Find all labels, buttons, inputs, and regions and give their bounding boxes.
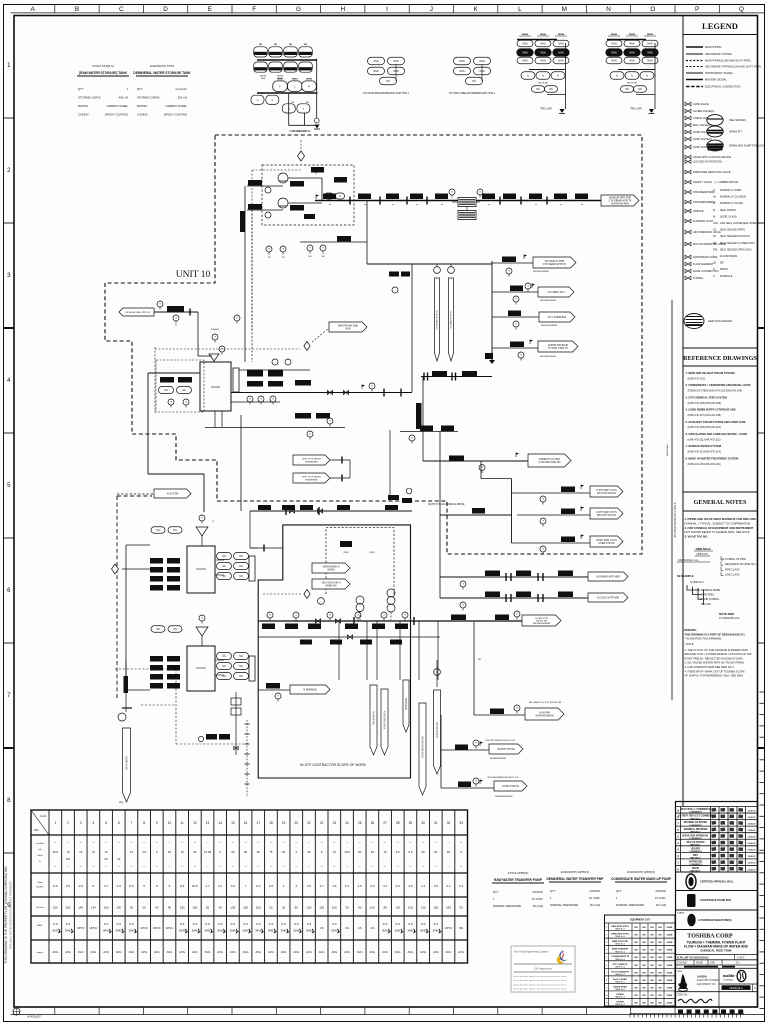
general notes text xyxy=(685,517,757,539)
svg-text:15 m3/hr: 15 m3/hr xyxy=(655,896,666,900)
svg-text:PSL: PSL xyxy=(713,248,718,251)
svg-text:--: -- xyxy=(308,864,310,868)
svg-text:NN: NN xyxy=(304,44,308,46)
svg-text:AVG: AVG xyxy=(446,950,452,954)
svg-text:NN: NN xyxy=(658,935,662,937)
svg-text:NN-LNN: NN-LNN xyxy=(211,386,220,389)
branch B1 xyxy=(492,255,576,277)
svg-text:304L: 304L xyxy=(293,929,300,933)
svg-text:3.5: 3.5 xyxy=(358,884,363,888)
svg-text:NN: NN xyxy=(239,575,243,578)
distribution header xyxy=(440,479,512,544)
svg-text:THIS DRAWING IS THE PROPERTY O: THIS DRAWING IS THE PROPERTY OF TOSHIBA … xyxy=(4,866,8,964)
tag code bracket list xyxy=(677,556,756,578)
svg-text:nn: nn xyxy=(329,204,331,206)
acid tank funnel xyxy=(196,515,214,546)
double instrument stack 2 xyxy=(387,589,395,620)
svg-text:--: -- xyxy=(143,840,145,844)
svg-text:25: 25 xyxy=(282,906,286,910)
svg-text:--: -- xyxy=(397,840,399,844)
svg-text:EPOXY COATING: EPOXY COATING xyxy=(164,113,187,117)
svg-text:4.7: 4.7 xyxy=(104,884,109,888)
svg-text:dwg.pt: dwg.pt xyxy=(37,951,44,954)
svg-text:NONE: NONE xyxy=(696,962,703,965)
svg-text:NN: NN xyxy=(642,927,646,929)
svg-text:--: -- xyxy=(257,864,259,868)
svg-text:NN PNP STP NN: NN PNP STP NN xyxy=(497,749,515,751)
svg-text:NN: NN xyxy=(650,972,654,974)
svg-text:3.5: 3.5 xyxy=(307,884,312,888)
svg-text:NN NN NN: NN NN NN xyxy=(627,83,637,85)
svg-text:HEAT EXCHANGER: HEAT EXCHANGER xyxy=(708,319,732,323)
svg-text:304L: 304L xyxy=(306,929,313,933)
svg-text:NNNN: NNNN xyxy=(292,79,298,81)
svg-text:ELECTRIC POWER: ELECTRIC POWER xyxy=(697,979,719,982)
svg-text:REV AS NOTED: REV AS NOTED xyxy=(687,841,705,844)
contractor logo cell xyxy=(678,968,720,991)
svg-text:SECONDARY PIPING(LOW AND DUTY: SECONDARY PIPING(LOW AND DUTY PIPE) xyxy=(705,65,761,69)
svg-text:SEAL SEALED CLOSED ONLY: SEAL SEALED CLOSED ONLY xyxy=(720,242,755,245)
svg-text:S.S: S.S xyxy=(116,922,121,926)
pipe schedule table frame xyxy=(31,810,468,963)
svg-text:--: -- xyxy=(194,840,196,844)
svg-text:nn: nn xyxy=(488,204,490,206)
unit 10 dashed battery-limit boundary xyxy=(105,135,642,554)
svg-text:28: 28 xyxy=(396,821,400,825)
svg-text:NN-NNN-NNNNN: NN-NNN-NNNNN xyxy=(540,300,556,302)
svg-text:QTY: QTY xyxy=(616,889,622,893)
svg-text:NN: NN xyxy=(650,950,654,952)
svg-text:N2 EXAMPLE: N2 EXAMPLE xyxy=(677,574,694,578)
svg-text:VALVE NO.: VALVE NO. xyxy=(678,559,691,562)
svg-text:SEAL SEALED OPEN ONLY: SEAL SEALED OPEN ONLY xyxy=(720,248,752,251)
svg-text:NN: NN xyxy=(658,957,662,959)
svg-text:DEMINERAL WATER TRANSFER PMP: DEMINERAL WATER TRANSFER PMP xyxy=(546,877,604,881)
svg-text:(KWU-FD-113,KWU-FD-114): (KWU-FD-113,KWU-FD-114) xyxy=(688,450,721,454)
svg-text:70: 70 xyxy=(79,850,83,854)
branch C2 xyxy=(517,507,623,527)
svg-text:AVG: AVG xyxy=(91,950,97,954)
svg-text:NN NN NN: NN NN NN xyxy=(538,83,548,85)
svg-text:N COOLG WTR HDR: N COOLG WTR HDR xyxy=(597,598,619,600)
svg-text:80: 80 xyxy=(383,906,387,910)
svg-text:24: 24 xyxy=(345,821,349,825)
svg-text:AVG: AVG xyxy=(103,950,109,954)
svg-text:304L: 304L xyxy=(52,929,59,933)
svg-text:50: 50 xyxy=(345,906,349,910)
scope banner 1 xyxy=(312,563,350,573)
rotated label box V2 xyxy=(416,403,422,429)
svg-text:--: -- xyxy=(447,864,449,868)
legend drum symbols xyxy=(707,115,765,151)
svg-text:JOB: JOB xyxy=(710,962,715,965)
svg-text:NN: NN xyxy=(658,972,662,974)
svg-text:6: 6 xyxy=(118,821,120,825)
svg-text:10/20/30(TP) APPR(X): 10/20/30(TP) APPR(X) xyxy=(627,870,655,874)
scope feed line xyxy=(250,545,283,552)
svg-text:--: -- xyxy=(346,840,348,844)
svg-text:DWG No.:: DWG No.: xyxy=(678,994,689,997)
notes footnote block xyxy=(685,612,752,678)
svg-text:NN: NN xyxy=(642,935,646,937)
svg-text:AVG: AVG xyxy=(230,950,236,954)
branch B4 xyxy=(492,340,578,361)
svg-text:50: 50 xyxy=(282,850,286,854)
svg-text:2(100%): 2(100%) xyxy=(532,890,543,894)
svg-text:nn: nn xyxy=(364,204,366,206)
svg-text:70: 70 xyxy=(333,850,337,854)
svg-text:VALVE WITH LOCKING DEVICE: VALVE WITH LOCKING DEVICE xyxy=(693,155,731,159)
svg-text:SEAL WATER: SEAL WATER xyxy=(720,209,736,212)
svg-text:70: 70 xyxy=(66,850,70,854)
svg-text:RAW WATER TRANSFER PUMP: RAW WATER TRANSFER PUMP xyxy=(494,878,543,882)
svg-text:NORMAL PRESSURE: NORMAL PRESSURE xyxy=(493,904,521,908)
svg-text:NN: NN xyxy=(642,987,646,989)
svg-text:NOT SHOWN REFER TO LEGEND DWG.: NOT SHOWN REFER TO LEGEND DWG. SEE NOTE xyxy=(685,530,750,534)
tall fill nozzle arrow 2 xyxy=(448,264,455,361)
svg-text:304L: 304L xyxy=(255,929,262,933)
cluster 1 drain anchor xyxy=(292,125,320,134)
svg-text:K.PL.NT 02 000.000-01: K.PL.NT 02 000.000-01 xyxy=(677,955,709,959)
cluster instruments xyxy=(266,170,319,260)
svg-text:NNN: NNN xyxy=(629,60,634,63)
svg-text:(KWU-FD-101): (KWU-FD-101) xyxy=(688,376,705,380)
svg-text:10/20/30(TP) XXXX: 10/20/30(TP) XXXX xyxy=(150,64,175,68)
svg-text:--: -- xyxy=(156,864,158,868)
svg-text:304L: 304L xyxy=(179,929,186,933)
svg-text:1 (comm): 1 (comm) xyxy=(175,87,187,91)
svg-text:15: 15 xyxy=(231,821,235,825)
svg-text:--: -- xyxy=(168,840,170,844)
svg-text:S.S: S.S xyxy=(205,922,210,926)
svg-text:O: O xyxy=(650,6,655,13)
svg-text:65: 65 xyxy=(206,906,210,910)
main header line L1 xyxy=(315,200,601,202)
svg-text:2005E: 2005E xyxy=(667,972,673,974)
svg-text:FLOW ELEMENT: FLOW ELEMENT xyxy=(693,262,714,266)
svg-text:NN: NN xyxy=(182,389,186,392)
svg-text:ACCEPTANCE STAMP BOX: ACCEPTANCE STAMP BOX xyxy=(700,899,731,902)
svg-text:--: -- xyxy=(130,840,132,844)
svg-text:--: -- xyxy=(333,840,335,844)
svg-text:NNNN: NNNN xyxy=(611,34,618,36)
grid row ticks right xyxy=(758,118,766,1008)
svg-text:TK WTR STRG TK: TK WTR STRG TK xyxy=(548,347,569,350)
svg-text:12.08.31: 12.08.31 xyxy=(747,863,756,865)
drop line to sampling xyxy=(474,622,481,715)
svg-text:304L: 304L xyxy=(242,929,249,933)
vertical label box V1 xyxy=(240,211,245,232)
svg-text:12: 12 xyxy=(193,821,197,825)
svg-text:MFG: MFG xyxy=(678,971,683,973)
svg-text:NaOH TRANSFR: NaOH TRANSFR xyxy=(611,970,629,973)
caustic tank funnel xyxy=(196,615,208,646)
svg-text:40: 40 xyxy=(155,906,159,910)
booster pumps xyxy=(265,173,288,218)
svg-text:--: -- xyxy=(384,864,386,868)
svg-text:N2(TP) SYS 2&3 SAME AS ABOVE: N2(TP) SYS 2&3 SAME AS ABOVE xyxy=(428,503,465,506)
svg-text:GATE VALVE: GATE VALVE xyxy=(693,102,709,106)
legend symbol rows xyxy=(685,102,731,280)
svg-text:90: 90 xyxy=(358,906,362,910)
svg-text:150: 150 xyxy=(319,906,324,910)
svg-text:NN: NN xyxy=(634,950,638,952)
svg-text:NN: NN xyxy=(642,980,646,982)
svg-text:AVG: AVG xyxy=(344,950,350,954)
svg-text:TANK No.1: TANK No.1 xyxy=(615,973,626,976)
svg-text:1. MAIN AND RE-HEAT STEAM SYST: 1. MAIN AND RE-HEAT STEAM SYSTEM xyxy=(686,371,735,375)
svg-text:NN-NN-NN-NNN: NN-NN-NN-NNN xyxy=(611,202,629,205)
table top note xyxy=(119,800,123,804)
svg-text:4.7: 4.7 xyxy=(320,884,325,888)
svg-text:m3/hr: m3/hr xyxy=(37,854,43,857)
svg-text:--: -- xyxy=(447,840,449,844)
svg-text:50 mAQ: 50 mAQ xyxy=(533,904,544,908)
svg-text:12.08.31: 12.08.31 xyxy=(747,830,756,832)
right matchline xyxy=(667,300,677,700)
svg-text:S.S: S.S xyxy=(66,922,71,926)
svg-text:N STP WSH N SYS: N STP WSH N SYS xyxy=(596,490,617,492)
chemical tank TK2 xyxy=(187,546,215,593)
svg-text:2005E: 2005E xyxy=(667,950,673,952)
branch to neutralizing xyxy=(474,701,564,720)
svg-text:20: 20 xyxy=(105,857,109,861)
svg-text:TO RAW WTR TK: TO RAW WTR TK xyxy=(450,311,453,329)
svg-text:N-C SERV STN: N-C SERV STN xyxy=(548,291,565,294)
svg-text:TANK No.1: TANK No.1 xyxy=(615,950,626,953)
branch C1 xyxy=(512,485,624,505)
svg-text:( ) = ABBREVIATION: ( ) = ABBREVIATION xyxy=(714,180,738,184)
svg-text:UPVC: UPVC xyxy=(445,926,453,930)
svg-text:MATL: MATL xyxy=(37,924,43,927)
svg-text:S.S: S.S xyxy=(243,922,248,926)
svg-text:NN-NNN-NNNNN: NN-NNN-NNNNN xyxy=(535,715,553,717)
svg-text:L: L xyxy=(518,6,522,13)
svg-text:NN-NNN-NNNNN: NN-NNN-NNNNN xyxy=(541,325,557,327)
svg-text:* NOTE: * NOTE xyxy=(685,642,694,646)
reference drawings panel xyxy=(683,348,758,366)
svg-text:3.5: 3.5 xyxy=(396,884,401,888)
svg-text:4.1: 4.1 xyxy=(218,884,223,888)
inlet down pipe xyxy=(198,312,212,356)
svg-text:N NN PNP: N NN PNP xyxy=(539,713,550,715)
booster pump dashed enclosure xyxy=(262,165,354,225)
drain stub boxes xyxy=(241,415,412,511)
svg-text:S.S: S.S xyxy=(281,922,286,926)
svg-text:5.1: 5.1 xyxy=(345,884,350,888)
svg-text:PRESSURE REDUCING VALVE: PRESSURE REDUCING VALVE xyxy=(693,170,731,174)
svg-text:NNNN NN: NNNN NN xyxy=(325,584,336,587)
svg-text:QTY: QTY xyxy=(550,889,556,893)
svg-text:XXX10 APPR(X): XXX10 APPR(X) xyxy=(508,871,529,875)
raw water inlet label xyxy=(119,301,198,316)
svg-text:N: N xyxy=(722,557,724,561)
branch header elbow box xyxy=(485,353,495,364)
svg-text:FLOOR DRAIN: FLOOR DRAIN xyxy=(720,255,737,258)
svg-text:NORMAL PRESSURE: NORMAL PRESSURE xyxy=(616,903,644,907)
svg-text:--: -- xyxy=(435,864,437,868)
svg-text:NN: NN xyxy=(634,987,638,989)
svg-text:TPU XSSY XSBLLATIN PRGRMS AUST: TPU XSSY XSBLLATIN PRGRMS AUST TPSL 2 xyxy=(449,92,496,95)
tank left dosing boxes upper xyxy=(150,527,182,591)
svg-text:304L: 304L xyxy=(103,929,110,933)
svg-text:J: J xyxy=(430,6,433,13)
svg-text:POINT PRELIM., REFLECTED IN AS: POINT PRELIM., REFLECTED IN AS-BUILT DWG… xyxy=(685,656,744,660)
svg-text:NNN: NNN xyxy=(261,78,266,80)
approval stamp box (grey) xyxy=(511,946,575,992)
svg-text:nn: nn xyxy=(535,204,537,206)
svg-text:10/20/30(TP) APPR(X): 10/20/30(TP) APPR(X) xyxy=(561,870,589,874)
svg-text:DR: DR xyxy=(720,262,724,265)
svg-text:N: N xyxy=(557,75,559,78)
svg-text:LEVEL GLASS: LEVEL GLASS xyxy=(720,215,737,218)
svg-text:AVG: AVG xyxy=(306,950,312,954)
spec block upper left 2 xyxy=(133,64,191,117)
transfer line T2 xyxy=(440,592,628,611)
svg-text:LP: LP xyxy=(713,235,716,238)
svg-text:125: 125 xyxy=(395,906,400,910)
svg-text:S.S: S.S xyxy=(256,922,261,926)
svg-text:NORMALLY OPEN: NORMALLY OPEN xyxy=(720,189,741,192)
svg-text:CS: CS xyxy=(370,926,374,930)
svg-text:40.5: 40.5 xyxy=(192,884,198,888)
svg-text:INSTRUMENT SIGNAL: INSTRUMENT SIGNAL xyxy=(705,71,734,75)
svg-text:S SCALE: S SCALE xyxy=(677,962,688,965)
svg-text:10 m3/hr: 10 m3/hr xyxy=(589,896,600,900)
trunk destination label xyxy=(601,195,639,206)
svg-text:D: D xyxy=(713,268,715,271)
bottom scale ruler xyxy=(630,1010,744,1018)
svg-text:S.S: S.S xyxy=(269,922,274,926)
svg-text:--: -- xyxy=(460,840,462,844)
grid row numbers left xyxy=(4,63,15,909)
svg-text:AND SHALL NOT BE REPRODUCED WI: AND SHALL NOT BE REPRODUCED WITHOUT PERM… xyxy=(10,881,13,949)
svg-text:21: 21 xyxy=(307,821,311,825)
svg-text:NNN: NNN xyxy=(611,60,616,63)
svg-text:AVG: AVG xyxy=(408,950,414,954)
partner logo cell xyxy=(719,970,758,991)
svg-text:A: A xyxy=(31,6,36,13)
svg-text:--: -- xyxy=(168,864,170,868)
svg-text:P: P xyxy=(308,85,310,89)
svg-text:nn: nn xyxy=(441,204,443,206)
svg-text:nn: nn xyxy=(560,204,562,206)
tank outlet piping xyxy=(231,370,412,402)
svg-text:17: 17 xyxy=(256,821,260,825)
title block outline xyxy=(676,802,758,1008)
svg-text:Flow: Flow xyxy=(38,882,43,884)
svg-text:S.S: S.S xyxy=(383,922,388,926)
heat exchanger HX1 xyxy=(458,198,476,207)
svg-text:12.08.31: 12.08.31 xyxy=(747,850,756,852)
spec block bottom 1 xyxy=(492,871,544,908)
lower secondary components xyxy=(300,635,402,645)
equipment cluster 2 xyxy=(363,57,410,95)
svg-text:110: 110 xyxy=(421,906,426,910)
svg-text:S.S: S.S xyxy=(421,922,426,926)
svg-text:NN: NN xyxy=(634,995,638,997)
svg-text:m: m xyxy=(713,275,715,278)
table header diagonal cell xyxy=(31,810,49,835)
svg-text:NN: NN xyxy=(164,389,168,392)
svg-text:27: 27 xyxy=(383,821,387,825)
svg-text:304L: 304L xyxy=(204,929,211,933)
drop pipes to drains xyxy=(339,621,438,680)
svg-text:100: 100 xyxy=(307,906,312,910)
svg-text:TOSHIBA: TOSHIBA xyxy=(723,979,733,982)
svg-text:15 m3/hr: 15 m3/hr xyxy=(532,897,543,901)
svg-text:SECONDARY PIPING: SECONDARY PIPING xyxy=(705,52,732,56)
svg-text:NNN: NNN xyxy=(540,52,545,55)
svg-text:304L: 304L xyxy=(382,929,389,933)
HX instruments xyxy=(449,189,483,198)
drain ribbon R2 xyxy=(381,689,388,755)
svg-text:AS REPT REFLECT COMMENT: AS REPT REFLECT COMMENT xyxy=(678,815,714,818)
svg-text:150: 150 xyxy=(243,906,248,910)
svg-text:NN: NN xyxy=(638,88,642,91)
svg-text:MANHOLE: MANHOLE xyxy=(720,275,733,278)
svg-text:NNxNN: NNxNN xyxy=(211,329,219,331)
svg-text:CHEM STR NN: CHEM STR NN xyxy=(599,543,615,545)
svg-text:50: 50 xyxy=(130,906,134,910)
svg-text:--: -- xyxy=(80,840,82,844)
svg-text:UNIT 10: UNIT 10 xyxy=(176,270,211,280)
svg-text:CARBON STEEL: CARBON STEEL xyxy=(165,104,187,108)
drawing number rows xyxy=(676,955,758,969)
svg-text:304L: 304L xyxy=(230,929,237,933)
svg-text:NNN: NNN xyxy=(522,60,527,63)
svg-text:75: 75 xyxy=(269,850,273,854)
svg-text:LO: LO xyxy=(713,229,716,232)
legend heat exchanger symbol xyxy=(684,314,732,329)
svg-text:SEQ NO.: SEQ NO. xyxy=(701,603,712,606)
svg-text:--: -- xyxy=(384,840,386,844)
svg-text:2005E: 2005E xyxy=(667,935,673,937)
svg-text:--: -- xyxy=(232,840,234,844)
svg-text:22: 22 xyxy=(320,821,324,825)
svg-text:PE: PE xyxy=(459,926,463,930)
svg-text:25 mAQ: 25 mAQ xyxy=(590,903,601,907)
svg-text:UPVC: UPVC xyxy=(89,926,97,930)
svg-text:N: N xyxy=(631,75,633,78)
svg-text:--: -- xyxy=(321,840,323,844)
svg-text:NNNNNNNN: NNNNNNNN xyxy=(305,461,318,463)
svg-text:DRAIN: DRAIN xyxy=(720,268,728,271)
svg-text:H2SO4 FEED: H2SO4 FEED xyxy=(613,985,627,988)
svg-text:--: -- xyxy=(118,864,120,868)
pretreat sub-boxes xyxy=(156,360,204,412)
svg-text:NN: NN xyxy=(650,1003,654,1005)
svg-text:ISSUED: ISSUED xyxy=(691,847,700,850)
svg-text:NN: NN xyxy=(650,995,654,997)
svg-text:--: -- xyxy=(270,864,272,868)
svg-text:2. FOR SYMBOLS OF EQUIPMENT AN: 2. FOR SYMBOLS OF EQUIPMENT AND INSTRUME… xyxy=(685,526,754,530)
scope diamond junction xyxy=(263,590,324,605)
svg-text:NN: NN xyxy=(472,80,476,83)
svg-text:3: 3 xyxy=(80,821,82,825)
svg-text:150: 150 xyxy=(446,906,451,910)
svg-text:NN: NN xyxy=(222,665,226,668)
svg-text:70: 70 xyxy=(92,850,96,854)
svg-text:2. CONDENSATE + FEEDWATER AND: 2. CONDENSATE + FEEDWATER AND DRAIN + EX… xyxy=(686,383,751,387)
svg-text:--: -- xyxy=(67,864,69,868)
svg-text:QTY: QTY xyxy=(137,87,143,91)
dashed ctrl line upper xyxy=(252,170,301,330)
right drain ribbon R5 xyxy=(434,660,441,774)
svg-text:7: 7 xyxy=(131,821,133,825)
system banner X SYSTM xyxy=(117,489,191,498)
svg-text:100: 100 xyxy=(53,906,58,910)
